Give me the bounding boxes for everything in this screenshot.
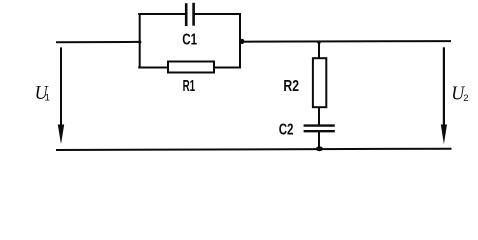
- wire C2 to bottom rail: [318, 132, 320, 150]
- svg-text:1: 1: [45, 92, 50, 103]
- svg-text:R1: R1: [183, 78, 196, 95]
- wire bottom rail: [56, 149, 452, 150]
- wire block bottom to R1 left: [138, 67, 167, 69]
- wire top-right (parallel block to output): [240, 40, 451, 43]
- voltage arrow U1 shaft: [60, 47, 62, 128]
- wire C1 right plate to block right edge: [195, 13, 242, 15]
- junction node (block right edge / top rail): [240, 39, 244, 44]
- resistor R1 body: [168, 62, 214, 73]
- junction node (block left edge / top rail): [138, 40, 141, 43]
- voltage arrow U1 head: [58, 125, 64, 145]
- voltage arrow U2 shaft: [443, 47, 445, 128]
- capacitor C1 plates: [185, 3, 188, 26]
- wire parallel-block right edge: [239, 13, 241, 69]
- junction node (C2 branch / bottom rail): [316, 146, 323, 151]
- wire top rail to R2: [318, 42, 320, 58]
- svg-text:C2: C2: [279, 121, 294, 138]
- wire top-left (input to parallel block): [56, 41, 139, 43]
- svg-text:C1: C1: [182, 32, 197, 49]
- wire R2 to C2: [318, 107, 320, 126]
- wire R1 right to block right edge: [215, 67, 241, 69]
- wire block top to C1 left plate: [138, 13, 185, 15]
- wire parallel-block left edge: [139, 13, 141, 69]
- svg-text:R2: R2: [283, 78, 299, 95]
- svg-text:2: 2: [463, 93, 468, 104]
- voltage arrow U2 head: [441, 125, 447, 145]
- capacitor C2 plates: [304, 124, 335, 126]
- junction node (R2 branch / top rail): [317, 41, 320, 44]
- resistor R2 body: [313, 58, 326, 107]
